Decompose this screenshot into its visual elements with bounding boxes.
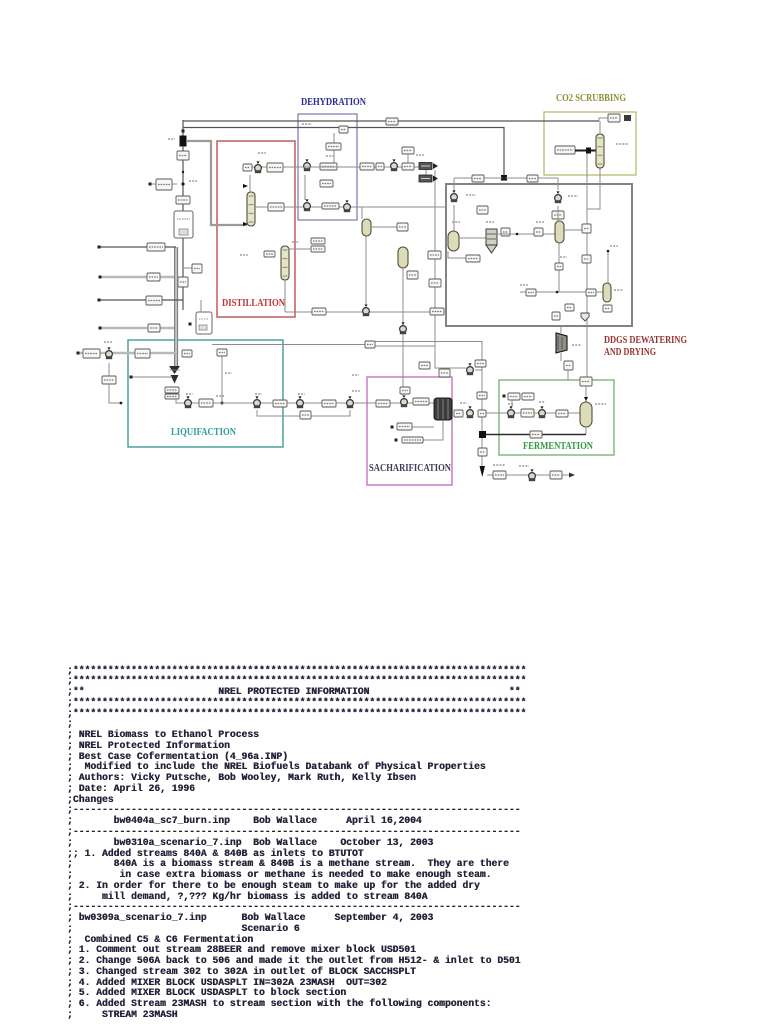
wire U1 down bbox=[182, 238, 184, 310]
label T1 bbox=[486, 221, 494, 223]
block N6 bbox=[466, 255, 480, 262]
wire enzyme to T2 bbox=[412, 426, 434, 428]
wire liquefaction water bbox=[131, 376, 172, 378]
block on drop bbox=[178, 277, 188, 287]
wire branch bbox=[183, 267, 193, 269]
wire header 1 to scrub overhead block bbox=[599, 118, 608, 121]
label L1 bbox=[216, 395, 224, 397]
wire V5 bottoms bbox=[558, 243, 560, 292]
label P1 bbox=[104, 341, 112, 343]
block L2 bbox=[273, 400, 287, 407]
block K2 bbox=[472, 175, 484, 182]
label N7 bbox=[560, 256, 567, 258]
junction dot bbox=[181, 182, 184, 185]
svg-text:DDGS DEWATERING: DDGS DEWATERING bbox=[604, 335, 687, 346]
block feeder A bbox=[165, 387, 179, 393]
drain dot bbox=[120, 402, 123, 405]
label D1 bbox=[258, 152, 266, 154]
vessel V2 bbox=[398, 247, 408, 268]
block M2 bbox=[176, 196, 190, 204]
tick yeast bbox=[503, 395, 506, 398]
wire C2 overhead bbox=[288, 248, 311, 250]
label P11 bbox=[539, 401, 545, 403]
block H4 bbox=[322, 203, 339, 209]
label PK2 bbox=[568, 195, 578, 197]
block B1 bbox=[312, 308, 326, 315]
label CIP1 bbox=[493, 464, 505, 466]
label P4 bbox=[298, 393, 305, 395]
block feed 3 bbox=[146, 296, 162, 305]
block E1 bbox=[83, 349, 100, 358]
block branch bbox=[192, 264, 202, 273]
pump PK1 bbox=[451, 190, 458, 202]
label H2 bbox=[326, 155, 334, 157]
block G1 bbox=[360, 163, 374, 170]
label C2 top bbox=[292, 241, 299, 243]
wire ferm feed row bbox=[486, 412, 580, 414]
pump P12 bbox=[529, 469, 536, 481]
tick U2 bbox=[189, 323, 192, 326]
wire recycle loop bbox=[257, 410, 350, 416]
label PK1 bbox=[466, 194, 476, 196]
wire recycle column bbox=[435, 259, 466, 368]
wire PK1 down bbox=[453, 205, 455, 231]
wire V4 bottoms bbox=[448, 251, 466, 258]
C1 top valve bbox=[243, 184, 248, 188]
block FR3 bbox=[556, 410, 568, 417]
column C1 bbox=[247, 192, 255, 226]
block on vent bbox=[580, 377, 592, 386]
svg-text:DEHYDRATION: DEHYDRATION bbox=[301, 96, 366, 108]
saccharification reactor T2 bbox=[434, 398, 452, 420]
water tick bbox=[130, 376, 133, 379]
FERMENTATION region box bbox=[499, 380, 614, 455]
CO2 SCRUBBING region box bbox=[544, 112, 636, 175]
wire enzyme feed bbox=[78, 352, 176, 354]
DEHYDRATION region box bbox=[298, 114, 357, 220]
LIQUIFACTION region box bbox=[128, 340, 283, 447]
label P10 bbox=[508, 403, 514, 405]
svg-text:SACHARIFICATION: SACHARIFICATION bbox=[369, 463, 451, 474]
block feed 4 bbox=[148, 324, 160, 332]
block on riser A bbox=[477, 392, 487, 399]
wire bottoms branch bbox=[375, 345, 435, 347]
wire pump outlet bbox=[475, 369, 482, 371]
block H2 bbox=[320, 163, 337, 170]
wire vent to fermentor bbox=[585, 380, 587, 402]
block D5 bbox=[311, 246, 325, 252]
wire to reflux row bbox=[333, 150, 335, 163]
pump P2 bbox=[185, 396, 192, 408]
junction dot bbox=[182, 171, 184, 173]
tick S2 bbox=[395, 439, 398, 442]
label V4 bbox=[452, 221, 460, 223]
wire reflux row bbox=[245, 166, 295, 168]
pump PH1 bbox=[304, 159, 311, 171]
junction on ferm row bbox=[481, 412, 484, 415]
label V7 bbox=[614, 289, 623, 291]
feed tick 4 bbox=[99, 327, 102, 330]
wire tank out bbox=[497, 233, 555, 235]
wire V7 feed bbox=[607, 251, 609, 283]
block label Y bbox=[419, 362, 430, 369]
wire still bottoms riser bbox=[375, 342, 482, 467]
wire V4 to tank bbox=[459, 237, 486, 239]
label P3 bbox=[255, 393, 262, 395]
block on header 2 bbox=[386, 118, 398, 125]
tank T1 bbox=[486, 229, 497, 253]
wire P1 drop bbox=[108, 363, 110, 376]
block F1 bbox=[156, 179, 172, 190]
block S3 bbox=[397, 423, 412, 430]
block S1 bbox=[413, 398, 429, 405]
block G5 bbox=[402, 147, 414, 154]
label V5 bbox=[536, 221, 544, 223]
block N7 bbox=[555, 263, 563, 270]
wire C1 top bbox=[249, 175, 251, 192]
stillage processing region box bbox=[446, 184, 632, 326]
vessel V5 bbox=[555, 221, 564, 243]
wire product row bbox=[295, 166, 432, 168]
wire yeast drop bbox=[511, 400, 513, 407]
product block K1 bbox=[419, 175, 438, 182]
svg-text:DISTILLATION: DISTILLATION bbox=[222, 297, 285, 309]
label P9 bbox=[460, 402, 467, 404]
block Y2 bbox=[522, 393, 534, 400]
junction bbox=[516, 233, 519, 236]
label V6 bbox=[595, 403, 606, 405]
pump PD1 bbox=[255, 161, 262, 173]
block N8 bbox=[526, 289, 536, 296]
wire PH1 down bbox=[304, 175, 306, 200]
wire scrubber overhead bbox=[599, 121, 601, 134]
block N5b bbox=[582, 255, 591, 263]
block M1 bbox=[177, 151, 189, 160]
label sacch stream bbox=[352, 374, 359, 376]
wire T2 bottoms bbox=[423, 420, 443, 440]
block R1 bbox=[365, 341, 375, 348]
label V7 feed bbox=[610, 245, 618, 247]
junction mark bbox=[182, 130, 185, 133]
wire PK2 down bbox=[557, 206, 559, 221]
feed tick 1 bbox=[98, 246, 101, 249]
block E3 bbox=[102, 376, 116, 384]
wire to scrubber (black) bbox=[575, 150, 597, 152]
block D1 bbox=[267, 163, 283, 172]
compressor X1 bbox=[556, 333, 567, 353]
pump P11 bbox=[539, 406, 546, 418]
label X1 bbox=[572, 344, 581, 346]
wire compressor out bbox=[560, 353, 562, 361]
wire chain down bbox=[182, 146, 184, 212]
wire header drop bbox=[333, 133, 335, 143]
drain arrow bbox=[480, 466, 486, 477]
wire U2 feed bbox=[200, 300, 202, 312]
wire to PK1 bbox=[453, 178, 455, 190]
inlet tick bbox=[149, 183, 152, 186]
beer junction blob bbox=[479, 431, 486, 438]
pump P10 bbox=[508, 406, 515, 418]
block N10 bbox=[603, 305, 612, 312]
wire C1 side draw bbox=[255, 206, 446, 208]
wire V5 out bbox=[564, 229, 586, 231]
label CIP2 bbox=[519, 465, 529, 467]
junction block J1 bbox=[180, 136, 187, 147]
unit box U1 bbox=[174, 211, 193, 238]
column C3 scrubber bbox=[596, 134, 604, 168]
block on sacch feed bbox=[400, 387, 410, 394]
block FR2 bbox=[521, 409, 534, 417]
block on recycle bbox=[429, 279, 441, 287]
wire feed 4 bbox=[100, 327, 174, 329]
block L5 bbox=[300, 411, 311, 419]
junction K bbox=[503, 177, 506, 180]
C1 bottom valve bbox=[243, 222, 248, 226]
block W1 bbox=[555, 146, 575, 154]
wire U2 bottoms to mash row bbox=[221, 352, 223, 403]
label N8 bbox=[520, 284, 528, 286]
arrow out bbox=[569, 473, 575, 478]
pump P5 bbox=[347, 396, 354, 408]
block feed 1 bbox=[147, 243, 165, 251]
wire vapor header 1 bbox=[183, 120, 599, 122]
wire G5 drop bbox=[407, 154, 409, 163]
block on riser B bbox=[478, 448, 487, 456]
block K3 bbox=[527, 175, 538, 182]
junction mash row bbox=[221, 402, 224, 405]
slurry duct bbox=[174, 247, 178, 366]
DDGS DEWATERING AND DRYING label bbox=[604, 335, 687, 358]
vessel V1 bbox=[362, 219, 371, 236]
wire J1 to column D1 feed bbox=[187, 141, 247, 225]
SACHARIFICATION region box bbox=[367, 377, 452, 485]
block L1 bbox=[199, 399, 213, 407]
label P5 bbox=[352, 390, 360, 392]
block V2 out bbox=[407, 271, 418, 279]
wire to drain bbox=[109, 384, 121, 403]
wire CIP row bbox=[487, 474, 572, 476]
pump P8 bbox=[363, 304, 370, 316]
block feeder B bbox=[165, 394, 179, 399]
block G2 bbox=[376, 163, 384, 170]
svg-text:LIQUIFACTION: LIQUIFACTION bbox=[171, 426, 236, 438]
feed tick 3 bbox=[98, 299, 101, 302]
wire CO2 vent riser bbox=[586, 153, 588, 380]
junction blob on scrubber feed bbox=[586, 148, 591, 154]
block N5 bbox=[582, 224, 591, 233]
wire scrubber bottoms bbox=[587, 168, 600, 209]
wire down to row bbox=[425, 170, 427, 178]
svg-text:AND DRYING: AND DRYING bbox=[604, 347, 656, 358]
block FR1 bbox=[478, 410, 486, 417]
wire to PK2 bbox=[557, 178, 559, 190]
feed tick 2 bbox=[99, 276, 102, 279]
pump P1 bbox=[106, 347, 113, 359]
wire syrup line bbox=[520, 291, 603, 293]
block H3 bbox=[320, 180, 333, 187]
wire beer line bbox=[285, 311, 446, 313]
junction bbox=[556, 291, 559, 294]
pump PK2 bbox=[555, 191, 562, 203]
wire row to recycle block bbox=[434, 170, 436, 251]
block H1 bbox=[326, 143, 341, 150]
pump P7 bbox=[467, 363, 474, 375]
dot bbox=[607, 250, 610, 253]
block N1 bbox=[477, 206, 488, 214]
block D0 bbox=[243, 164, 252, 171]
block FR0 bbox=[454, 410, 463, 417]
wire V2 down bbox=[402, 268, 404, 347]
block S2 bbox=[402, 437, 423, 443]
wire V6 bottoms bbox=[585, 427, 587, 434]
block at duct bbox=[182, 350, 192, 357]
vessel V4 bbox=[448, 231, 459, 251]
DISTILLATION region box bbox=[217, 141, 295, 317]
block D4 bbox=[311, 238, 325, 244]
label scrubber bbox=[616, 143, 628, 145]
wire feed 1 bbox=[99, 246, 176, 248]
pump PH2 bbox=[304, 199, 311, 211]
block on U2 bottoms bbox=[217, 349, 227, 356]
tick S3 bbox=[391, 426, 394, 429]
block V1out bbox=[397, 223, 408, 231]
block feed 2 bbox=[147, 273, 160, 281]
block N3 bbox=[501, 228, 510, 236]
wire bottoms transfer bbox=[212, 344, 365, 346]
block N11 bbox=[565, 304, 574, 311]
wire V1 feed bbox=[361, 207, 363, 219]
V6 top valve bbox=[584, 397, 588, 401]
label at junction bbox=[189, 180, 197, 182]
pump PG1 bbox=[391, 159, 398, 171]
wire C2 bottoms bbox=[284, 280, 286, 312]
block E2 bbox=[135, 349, 150, 358]
label near J1 bbox=[168, 138, 175, 140]
label ALC bbox=[302, 123, 312, 125]
label on drop bbox=[225, 372, 232, 374]
wire vapor header 2 and riser bbox=[183, 128, 504, 177]
block D2 bbox=[268, 203, 284, 211]
block L3 bbox=[322, 400, 336, 407]
wire V1 bottoms bbox=[365, 236, 367, 305]
wire to compressor bbox=[560, 326, 562, 333]
block N9 bbox=[586, 289, 596, 296]
block FR4 bbox=[530, 431, 542, 438]
valve VL1 bbox=[581, 313, 589, 321]
feed tick 5 bbox=[77, 352, 80, 355]
wire sacch feed bbox=[402, 347, 404, 397]
block D3 bbox=[264, 251, 275, 257]
label G4 bbox=[416, 154, 424, 156]
block L4 bbox=[376, 400, 390, 407]
wire to fermentation bbox=[567, 370, 569, 380]
wire feed 3 bbox=[99, 299, 183, 301]
pump P4 bbox=[297, 396, 304, 408]
svg-text:FERMENTATION: FERMENTATION bbox=[523, 440, 593, 452]
block label W bbox=[475, 360, 486, 367]
wire feed 2 bbox=[100, 276, 174, 278]
label P2 bbox=[186, 393, 193, 395]
wire mash line bbox=[176, 399, 434, 403]
svg-text:CO2 SCRUBBING: CO2 SCRUBBING bbox=[556, 92, 626, 104]
block W2 bbox=[608, 114, 620, 122]
riser junction blob bbox=[501, 175, 507, 181]
valve on mash line bbox=[400, 322, 407, 334]
block Y1 bbox=[508, 393, 520, 400]
vent terminator bbox=[624, 115, 631, 121]
hopper bbox=[169, 366, 180, 384]
wire stillage header bbox=[454, 177, 558, 179]
block R2 bbox=[428, 251, 441, 259]
label C2 bbox=[240, 254, 248, 256]
block N12 bbox=[552, 312, 560, 320]
vessel V6 fermentor bbox=[580, 402, 592, 427]
block G3 bbox=[402, 163, 414, 170]
wire V1 side bbox=[371, 226, 397, 228]
block C2P bbox=[550, 471, 562, 479]
column C2 bbox=[281, 246, 289, 280]
wire beer to distillation bbox=[486, 434, 586, 436]
wire side feed bbox=[150, 183, 177, 185]
block N4 bbox=[534, 228, 543, 236]
block B2 bbox=[430, 308, 444, 315]
block C1P bbox=[493, 471, 506, 479]
block N13 bbox=[564, 361, 573, 370]
pump P3 bbox=[254, 396, 261, 408]
pump P9 bbox=[467, 406, 474, 418]
pump PH3 bbox=[344, 200, 351, 212]
block label Z bbox=[439, 369, 450, 377]
block N2 bbox=[552, 211, 564, 219]
unit box U2 bbox=[196, 312, 212, 334]
wire riser to headers bbox=[182, 120, 184, 136]
pump P6 bbox=[401, 395, 408, 407]
vessel V7 bbox=[603, 283, 611, 302]
block on header bbox=[339, 126, 348, 133]
product block G4 bbox=[419, 163, 438, 170]
